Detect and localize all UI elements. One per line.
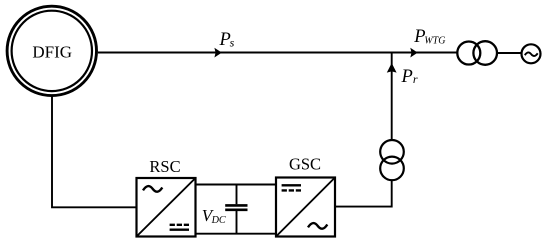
RSC DC symbol dashed bar <box>170 224 189 226</box>
transformer T2 lower winding <box>380 157 404 181</box>
wire: transformer T2 to GSC <box>335 180 392 206</box>
GSC diagonal <box>276 178 335 237</box>
svg-text:PWTG: PWTG <box>413 27 445 47</box>
svg-text:VDC: VDC <box>202 206 226 226</box>
wire: transformer T1 to grid source <box>497 52 522 54</box>
svg-text:RSC: RSC <box>149 157 180 176</box>
capacitor C1 top lead <box>236 185 238 205</box>
grid source sine symbol <box>525 52 538 56</box>
generator DFIG outer circle <box>7 6 96 95</box>
wire: DC link top rail <box>195 184 276 186</box>
RSC diagonal <box>137 178 196 237</box>
grid source circle <box>522 44 541 63</box>
transformer T1 left winding <box>457 42 480 65</box>
RSC AC sine symbol <box>143 186 162 192</box>
svg-text:DFIG: DFIG <box>32 43 72 62</box>
GSC DC symbol dashed bar <box>282 189 301 191</box>
svg-text:Pr: Pr <box>401 67 418 87</box>
converter GSC box <box>276 178 335 237</box>
capacitor C1 bottom plate <box>225 209 247 212</box>
converter RSC box <box>137 178 196 237</box>
svg-text:GSC: GSC <box>289 155 321 174</box>
wire: rotor branch vertical <box>391 53 393 141</box>
svg-text:Ps: Ps <box>219 30 235 50</box>
wire: DC link bottom rail <box>195 233 276 235</box>
transformer T2 upper winding <box>380 140 404 164</box>
transformer T1 right winding <box>473 41 497 65</box>
wire: DFIG rotor to RSC <box>52 96 137 208</box>
generator DFIG inner circle <box>12 11 92 91</box>
capacitor C1 top plate <box>225 204 247 207</box>
arrow Pr <box>387 63 397 73</box>
GSC AC sine symbol <box>308 223 327 229</box>
RSC DC symbol solid bar <box>170 228 189 230</box>
capacitor C1 bottom lead <box>236 211 238 234</box>
wire: stator bus (DFIG to transformer) <box>98 52 457 54</box>
arrow Ps <box>214 48 221 58</box>
GSC DC symbol solid bar <box>282 184 301 186</box>
arrow PWTG <box>410 48 417 58</box>
